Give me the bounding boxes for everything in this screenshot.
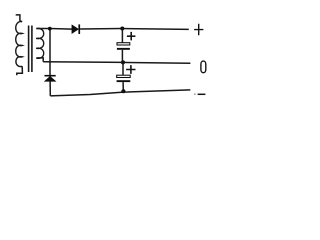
label - (negative terminal) — [198, 93, 206, 95]
wire D2 branch from node A down — [49, 29, 51, 76]
transformer T1 core line left — [28, 26, 30, 73]
wire 0 rail — [43, 62, 190, 64]
node C1 top junction dot — [120, 27, 124, 31]
transformer T1 primary top lead — [16, 15, 22, 22]
transformer T1 secondary winding — [36, 28, 44, 58]
capacitor C2 bottom stub — [122, 82, 124, 91]
capacitor C1 plus polarity mark — [127, 32, 135, 41]
capacitor C1 top stub — [121, 29, 123, 43]
wire top rail D1 to C1 node — [80, 28, 122, 31]
capacitor C1 bottom stub — [121, 50, 123, 63]
label 0 (common terminal) — [201, 61, 206, 73]
transformer T1 primary bottom lead — [17, 66, 23, 75]
label + (positive terminal) — [194, 24, 203, 36]
speck near minus label — [194, 94, 195, 95]
wire secondary top lead to node A — [37, 28, 50, 30]
wire top rail C1 node to + terminal — [122, 28, 189, 31]
node C1/C2 middle junction dot — [121, 60, 125, 64]
wire D2 anode down to bottom rail corner — [49, 81, 51, 96]
capacitor C2 positive plate (hollow) — [117, 75, 131, 77]
diode D1 triangle — [72, 25, 79, 34]
capacitor C1 positive plate (hollow) — [117, 43, 130, 45]
capacitor C2 plus polarity mark — [126, 65, 135, 74]
wire top rail node A to D1 — [50, 28, 72, 31]
diode D1 cathode bar — [78, 24, 80, 34]
transformer T1 primary winding — [16, 21, 22, 66]
capacitor C1 negative plate — [117, 48, 130, 50]
diode D2 triangle — [45, 76, 56, 81]
capacitor C2 top stub — [122, 62, 124, 75]
wire bottom rail — [50, 90, 190, 96]
capacitor C2 negative plate — [117, 80, 131, 82]
wire secondary bottom lead jog to 0 rail — [37, 58, 44, 62]
node A junction dot — [48, 27, 52, 31]
transformer T1 core line right — [31, 26, 33, 73]
diode D2 cathode bar — [45, 75, 56, 77]
node C2 bottom junction dot — [121, 89, 125, 93]
